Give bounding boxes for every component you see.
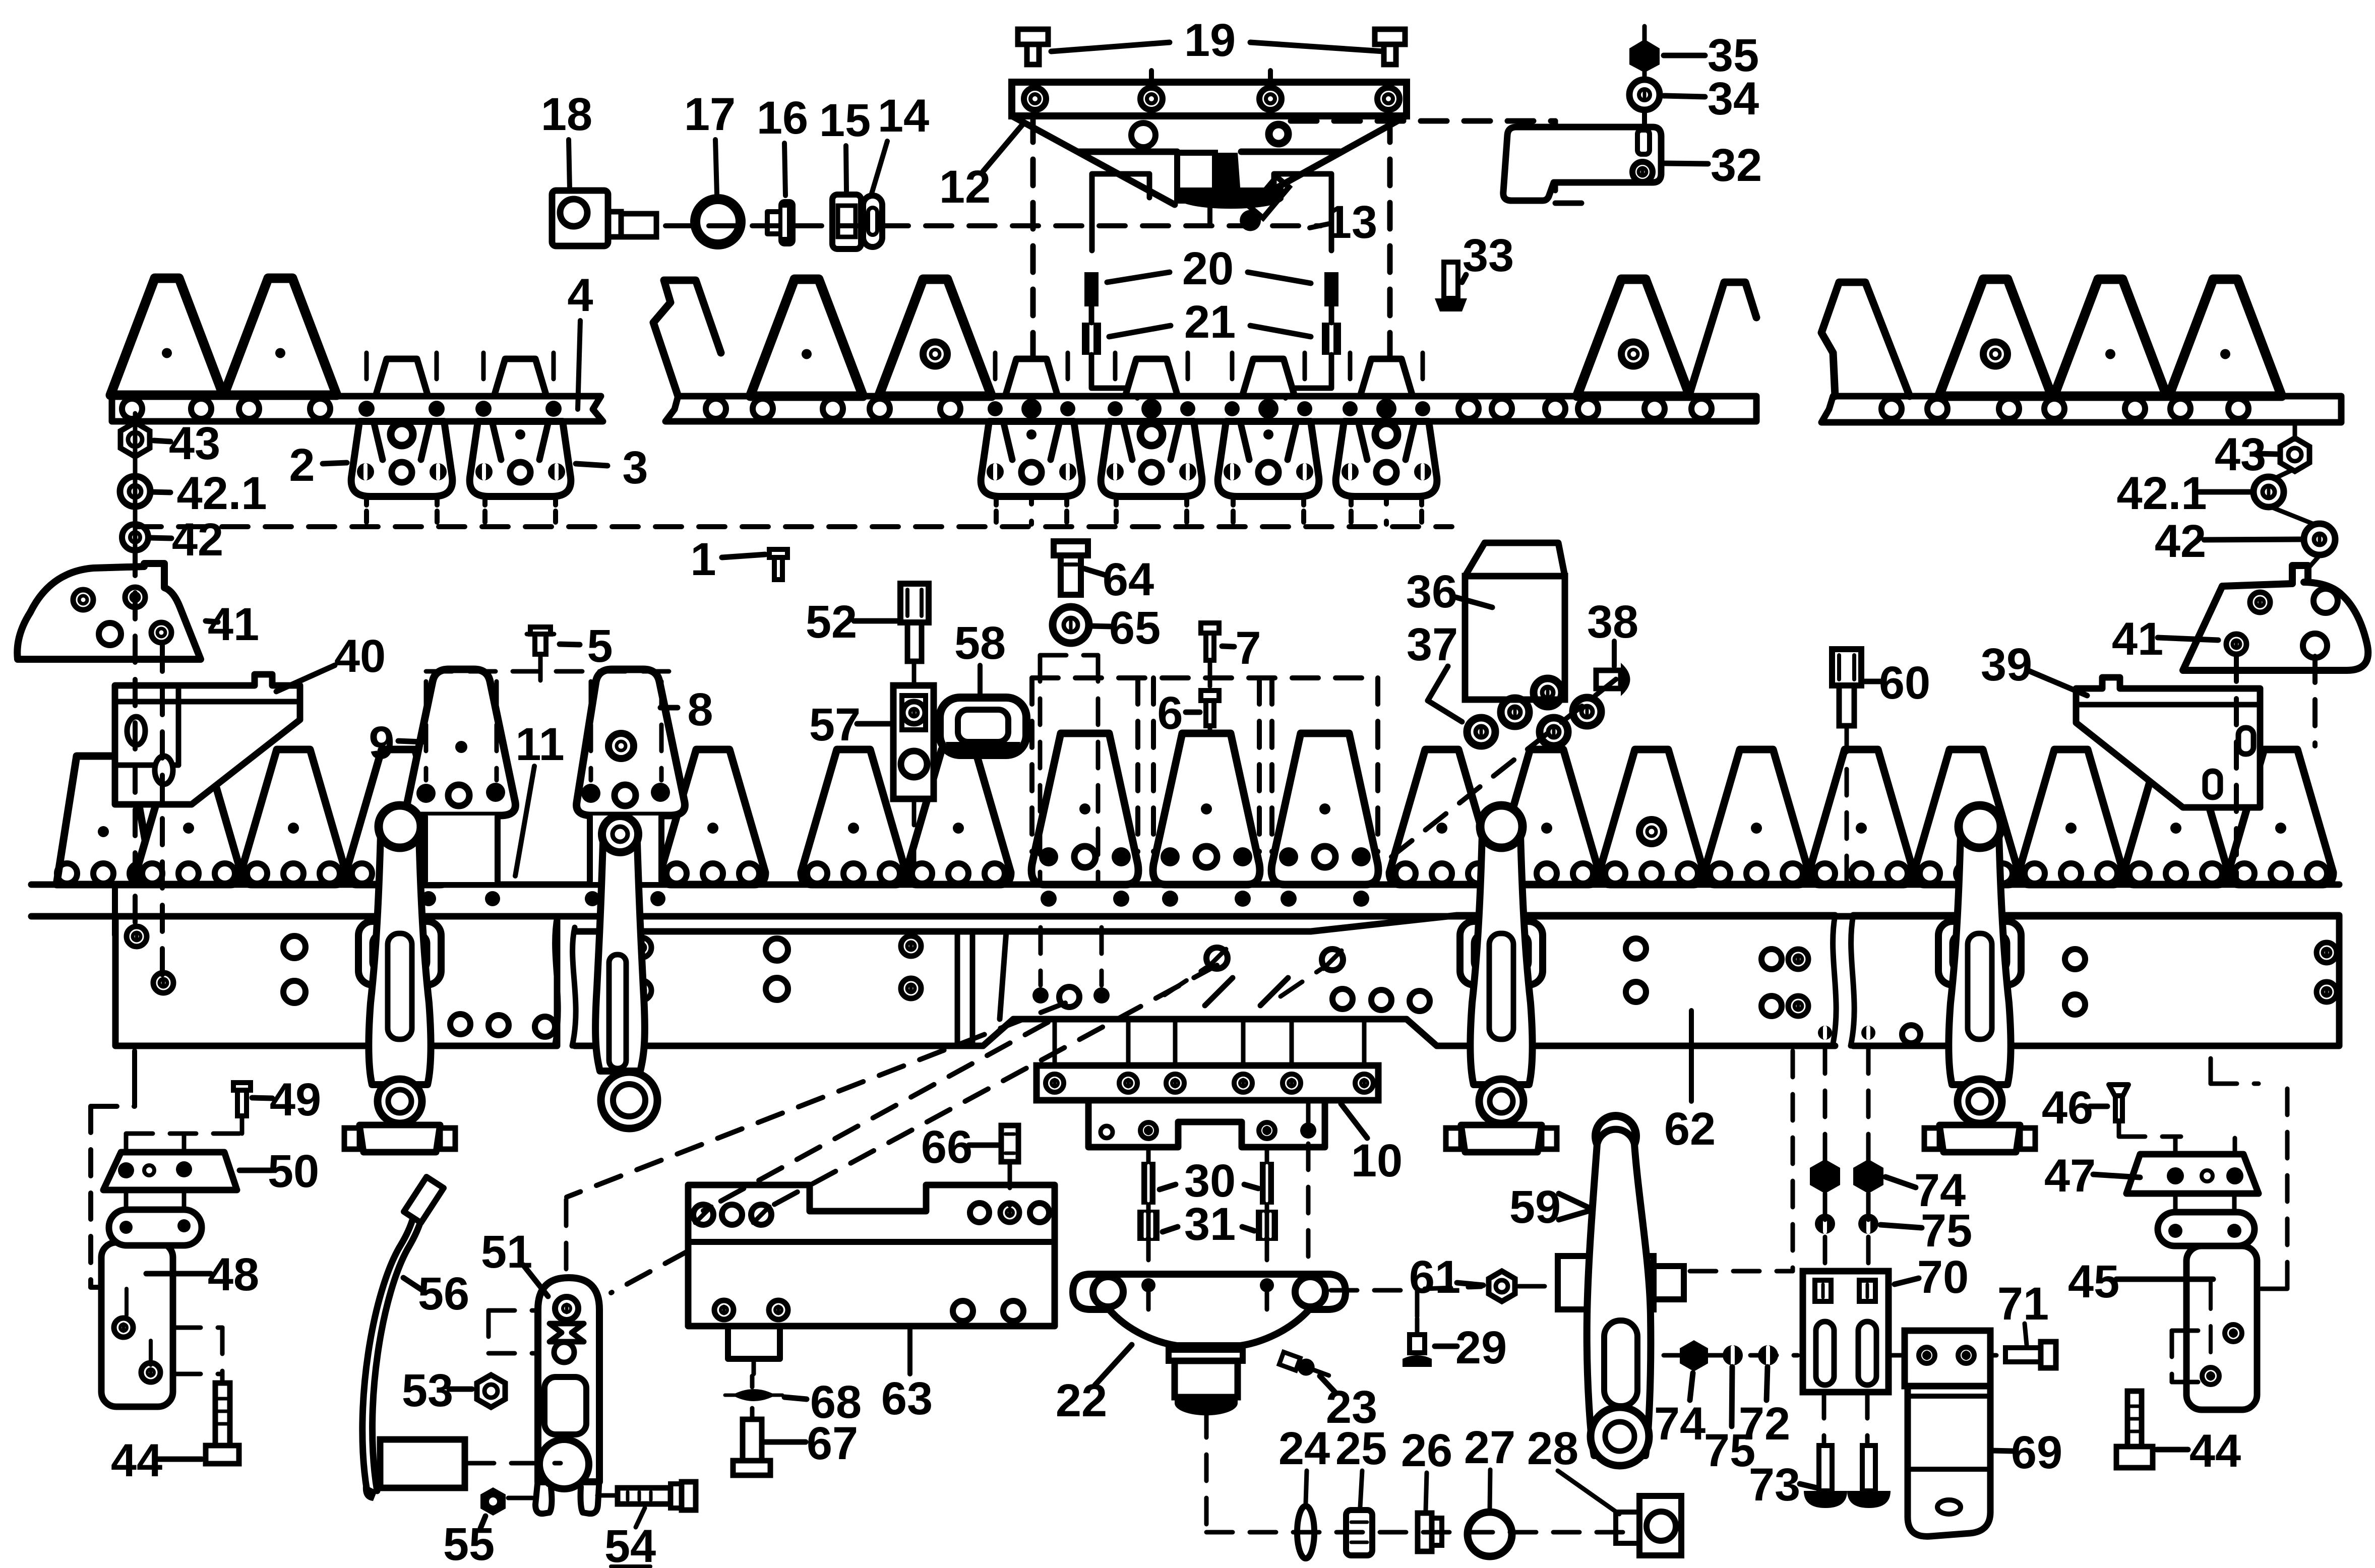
head holder 22 xyxy=(1073,1274,1346,1346)
knife blade partial xyxy=(1689,282,1756,396)
svg-text:70: 70 xyxy=(1917,1251,1969,1303)
dashed bolt line xyxy=(552,353,556,393)
dashed diag 37 xyxy=(1391,675,1621,857)
bolt 6 xyxy=(1201,691,1219,701)
bracket 69 xyxy=(1905,1331,1990,1386)
svg-text:27: 27 xyxy=(1464,1422,1515,1473)
svg-text:34: 34 xyxy=(1708,73,1759,124)
knife section xyxy=(1809,749,1914,885)
svg-text:1: 1 xyxy=(690,534,716,585)
nut 53 xyxy=(477,1375,505,1407)
top bar middle xyxy=(665,396,1756,421)
guard center 3 xyxy=(1218,421,1319,496)
part 15 sleeve xyxy=(832,195,861,249)
nut 74 right a xyxy=(1810,1159,1840,1194)
bar bolts xyxy=(1225,401,1240,416)
guard tip xyxy=(1242,359,1295,396)
bush 31 left xyxy=(1137,1210,1160,1241)
clamp bar 10 lower xyxy=(1088,1100,1325,1147)
svg-text:11: 11 xyxy=(515,719,564,770)
svg-text:15: 15 xyxy=(819,95,871,146)
frame weld marks xyxy=(1205,978,1233,1006)
svg-text:63: 63 xyxy=(881,1373,933,1424)
svg-text:64: 64 xyxy=(1103,554,1154,605)
dashed bolt line xyxy=(435,353,439,393)
svg-text:67: 67 xyxy=(807,1418,858,1469)
svg-text:6: 6 xyxy=(1157,687,1183,739)
bolt 52 xyxy=(900,584,929,622)
bolt 7 xyxy=(1201,623,1219,633)
svg-text:4: 4 xyxy=(567,270,593,321)
spring pin 30 right xyxy=(1260,1162,1274,1205)
bar hole xyxy=(2044,399,2064,419)
dashed box left xyxy=(132,1051,137,1081)
knife section xyxy=(2019,749,2123,885)
frame holes right xyxy=(1332,989,1353,1009)
ring 17 xyxy=(695,199,741,244)
center guard B xyxy=(1153,733,1260,885)
ticks frame to 10 xyxy=(1053,1022,1057,1063)
stack 74-75-72 axis xyxy=(1664,1353,1798,1358)
svg-text:43: 43 xyxy=(169,418,220,469)
bolt 19 right xyxy=(1375,29,1405,44)
bar bolts xyxy=(988,401,1003,416)
top bar bolt xyxy=(475,401,492,417)
plate 63 xyxy=(688,1185,1055,1326)
head cup xyxy=(1169,1350,1243,1361)
dashed bolt line xyxy=(364,353,369,393)
swing arm 2 xyxy=(595,831,645,1071)
knife blade xyxy=(879,279,992,396)
bolt 73 a xyxy=(1819,1446,1832,1491)
dashed head bolt line xyxy=(1029,678,1034,852)
bar hole xyxy=(823,399,843,419)
top bar bolt xyxy=(545,401,562,417)
svg-text:57: 57 xyxy=(809,699,861,750)
swing arm 1 xyxy=(369,815,431,1085)
plate 63 tab xyxy=(728,1326,780,1359)
dashed bolt lines right shoe xyxy=(2234,655,2239,882)
svg-text:61: 61 xyxy=(1409,1251,1460,1303)
svg-text:48: 48 xyxy=(208,1249,259,1300)
knife blade xyxy=(224,278,337,395)
svg-text:42.1: 42.1 xyxy=(176,468,267,519)
dashed head outline xyxy=(1032,675,1378,680)
tube 61-59 xyxy=(1558,1256,1654,1309)
bar hole xyxy=(1578,399,1598,419)
frame plate left xyxy=(115,916,557,1046)
plate 47 xyxy=(2126,1154,2259,1194)
svg-text:45: 45 xyxy=(2068,1256,2119,1307)
knife blade xyxy=(1939,279,2052,396)
svg-text:54: 54 xyxy=(604,1521,656,1568)
nut 43 left xyxy=(133,413,138,595)
spring strip 56 xyxy=(362,1190,418,1491)
plate 50 xyxy=(103,1152,237,1190)
dashed stud axes 70 xyxy=(1823,1047,1828,1168)
spring 20 right xyxy=(1324,272,1338,306)
svg-text:44: 44 xyxy=(2189,1425,2241,1477)
knife section wide end xyxy=(56,756,153,885)
top bar hole xyxy=(239,399,259,419)
dashed link to plate 32 xyxy=(1291,118,1555,124)
clamp bar 10 xyxy=(1037,1065,1378,1100)
bracket 12 holes xyxy=(1024,88,1046,110)
dashed diag to 51 top xyxy=(567,1003,1065,1197)
knife section xyxy=(2228,749,2333,885)
bar hole xyxy=(1458,399,1479,419)
svg-text:69: 69 xyxy=(2011,1427,2062,1478)
sleeve 25 xyxy=(1346,1510,1372,1555)
shoe 41 left xyxy=(17,563,201,659)
knife section xyxy=(906,749,1011,885)
dashed box 64 xyxy=(1038,655,1043,883)
svg-text:65: 65 xyxy=(1109,602,1161,654)
dashed 22-29 xyxy=(1331,1288,1417,1293)
dashed right net xyxy=(2285,1089,2290,1289)
svg-text:18: 18 xyxy=(541,89,592,140)
svg-text:62: 62 xyxy=(1664,1103,1716,1155)
guard 3 xyxy=(470,421,571,496)
spring 20 left xyxy=(1084,272,1099,306)
dashed diagonals to 51 xyxy=(763,965,1217,1211)
shoe 41 right xyxy=(2183,566,2368,670)
svg-text:9: 9 xyxy=(369,717,394,769)
bar hole xyxy=(940,399,960,419)
lever 59 xyxy=(1596,1116,1636,1156)
slashed holes xyxy=(1206,948,1228,969)
knife blade xyxy=(110,278,223,395)
frame plate center xyxy=(575,915,1835,1046)
washers 37 xyxy=(1467,718,1495,746)
washer 75 a xyxy=(1815,1214,1835,1234)
nut 74 right b xyxy=(1853,1159,1883,1194)
frame joint lines xyxy=(955,931,960,1046)
clamp plate 57 xyxy=(893,685,934,799)
washer 75 b xyxy=(1858,1214,1878,1234)
guard tip xyxy=(1360,359,1413,396)
dashed to bolts 73 xyxy=(1822,1392,1826,1442)
bolt 46 xyxy=(2109,1085,2128,1096)
knife blade xyxy=(2054,279,2167,396)
plug 38 xyxy=(1596,670,1621,688)
top bar bolt xyxy=(429,401,445,417)
spring 21 left xyxy=(1082,323,1101,355)
clamp 58 xyxy=(940,698,1026,755)
bolt 64 xyxy=(1054,541,1088,555)
bolt 44 right xyxy=(2127,1391,2142,1447)
dashed bolt lines xyxy=(1113,353,1118,396)
bolt 44 left xyxy=(215,1383,230,1446)
bolt 71 xyxy=(2005,1348,2041,1362)
spring pin 30 left xyxy=(1141,1162,1155,1205)
plate 32 xyxy=(1503,127,1661,201)
svg-text:29: 29 xyxy=(1455,1322,1507,1373)
staple clamp xyxy=(1460,921,1543,985)
bar hole xyxy=(2228,399,2248,419)
guard tip 3 xyxy=(494,359,546,396)
clip 29 xyxy=(1410,1335,1425,1353)
svg-text:47: 47 xyxy=(2044,1150,2096,1202)
dashed guard box left xyxy=(426,669,672,674)
top bar bolt xyxy=(358,401,375,417)
bar hole xyxy=(706,399,726,419)
frame bottom bolts xyxy=(1818,1026,1832,1040)
knife blade xyxy=(2169,279,2282,396)
knife section xyxy=(241,749,346,885)
frame plate right xyxy=(1853,915,2339,1046)
knife section xyxy=(1704,749,1809,885)
svg-text:56: 56 xyxy=(418,1268,469,1320)
stud 13 xyxy=(1236,175,1291,235)
knife section xyxy=(2123,749,2228,885)
swing arm 4 xyxy=(1948,815,2011,1085)
knife section xyxy=(1914,749,2019,885)
bush 31 right xyxy=(1256,1210,1278,1241)
guard tip 2 xyxy=(376,359,428,396)
dashed spring axes xyxy=(1146,1147,1151,1270)
knife section xyxy=(346,749,451,885)
top bar hole xyxy=(122,399,142,419)
dashed bolt lines shoe xyxy=(133,549,138,930)
bar hole xyxy=(1545,399,1565,419)
knife blade xyxy=(750,279,863,396)
nut 61 xyxy=(1489,1271,1515,1301)
dashed 55-54 xyxy=(508,1496,532,1500)
nut 35 xyxy=(1642,26,1647,40)
svg-text:75: 75 xyxy=(1921,1205,1972,1257)
svg-text:44: 44 xyxy=(111,1435,162,1486)
svg-text:42.1: 42.1 xyxy=(2116,468,2207,519)
svg-text:28: 28 xyxy=(1527,1423,1578,1474)
bar hole xyxy=(1927,399,1947,419)
svg-text:42: 42 xyxy=(2155,516,2206,567)
guard tip xyxy=(1005,359,1058,396)
knife blade partial xyxy=(1821,282,1910,396)
dashed head bolt line xyxy=(1375,678,1380,852)
staple clamp xyxy=(358,921,441,985)
svg-text:53: 53 xyxy=(402,1365,453,1416)
link 51 xyxy=(538,1278,599,1482)
center guard A xyxy=(1031,733,1138,885)
top bar left xyxy=(112,396,603,421)
knife section xyxy=(1494,749,1599,885)
guard center 4 xyxy=(1336,421,1437,496)
bolt 73 b xyxy=(1862,1446,1875,1491)
guard tip xyxy=(1125,359,1178,396)
top bar hole xyxy=(310,399,330,419)
svg-text:42: 42 xyxy=(172,514,223,566)
strip block xyxy=(380,1439,465,1488)
part 16 washer xyxy=(778,199,796,246)
bolt 54 xyxy=(618,1488,671,1504)
dashed head bolt line xyxy=(1257,678,1262,852)
block 28 xyxy=(1639,1496,1681,1555)
dashed bolt axes 19 xyxy=(1030,116,1036,396)
knife section xyxy=(1389,749,1494,885)
dashed head bolt line xyxy=(1269,678,1274,852)
knife section xyxy=(136,749,241,885)
bolt 60 xyxy=(1832,649,1861,685)
plate 70 xyxy=(1803,1271,1889,1392)
bar hole xyxy=(753,399,773,419)
nut 43 right xyxy=(2293,423,2297,440)
knife section xyxy=(1599,749,1704,885)
bar hole xyxy=(1999,399,2019,419)
guard 2 xyxy=(351,421,453,496)
svg-text:50: 50 xyxy=(268,1146,319,1197)
frame joint break right xyxy=(1833,915,1854,1046)
svg-text:59: 59 xyxy=(1509,1181,1561,1233)
swing arm 3 xyxy=(1470,815,1532,1085)
dashed 48-44 xyxy=(174,1326,222,1330)
svg-text:36: 36 xyxy=(1406,566,1457,617)
svg-text:7: 7 xyxy=(1235,622,1261,674)
washer 42 right xyxy=(2304,524,2335,555)
dashed 46 path xyxy=(2117,1121,2121,1137)
part 18 bearing xyxy=(552,191,608,246)
svg-text:17: 17 xyxy=(684,89,736,140)
bracket 12 top plate xyxy=(1012,82,1407,116)
washer 75 left xyxy=(1723,1345,1743,1365)
svg-text:21: 21 xyxy=(1184,296,1236,348)
svg-text:40: 40 xyxy=(334,631,386,682)
frame edge continuation xyxy=(112,804,118,935)
svg-text:16: 16 xyxy=(757,92,808,144)
washer 65 xyxy=(1053,607,1089,643)
svg-text:46: 46 xyxy=(2042,1082,2093,1134)
svg-text:60: 60 xyxy=(1879,657,1930,709)
dashed 66 xyxy=(1008,1162,1012,1206)
bar hole xyxy=(1492,399,1512,419)
svg-text:20: 20 xyxy=(1182,243,1234,294)
svg-text:73: 73 xyxy=(1749,1459,1800,1511)
head bolt marks in frame xyxy=(1032,987,1049,1003)
bar hole xyxy=(2170,399,2190,419)
washer 68 xyxy=(732,1389,776,1401)
dashed bolt lines xyxy=(1348,353,1353,396)
svg-text:26: 26 xyxy=(1401,1425,1452,1476)
guard center 2 xyxy=(1101,421,1202,496)
top bar right xyxy=(1821,396,2341,422)
bar bolts xyxy=(1343,401,1358,416)
svg-text:8: 8 xyxy=(687,684,713,735)
svg-text:49: 49 xyxy=(270,1074,321,1125)
tall guard 9 xyxy=(407,669,516,816)
dashed 60 axis xyxy=(1845,726,1849,883)
bracket 45 xyxy=(2173,1194,2178,1212)
washer 42.1 left xyxy=(120,476,150,507)
dashed 63-67 xyxy=(750,1376,755,1387)
svg-text:39: 39 xyxy=(1981,639,2032,691)
svg-text:33: 33 xyxy=(1463,230,1514,281)
bolt 19 left xyxy=(1018,29,1048,44)
svg-text:25: 25 xyxy=(1335,1423,1387,1474)
svg-text:3: 3 xyxy=(622,442,648,493)
bar hole xyxy=(2125,399,2145,419)
washer 42 left xyxy=(122,524,148,550)
washer 72 xyxy=(1758,1345,1778,1365)
svg-text:31: 31 xyxy=(1184,1199,1236,1250)
bar hole xyxy=(1645,399,1665,419)
part 66 pin xyxy=(1001,1125,1018,1162)
svg-text:72: 72 xyxy=(1739,1398,1790,1450)
svg-text:37: 37 xyxy=(1407,619,1458,670)
svg-text:32: 32 xyxy=(1711,140,1762,191)
svg-text:24: 24 xyxy=(1278,1423,1330,1474)
seal 24 xyxy=(1297,1506,1314,1558)
part 14 seal xyxy=(863,196,882,247)
nut 74 left xyxy=(1680,1340,1708,1371)
knife section xyxy=(801,749,906,885)
svg-text:5: 5 xyxy=(587,620,613,672)
bar hole xyxy=(1691,399,1712,419)
svg-text:2: 2 xyxy=(289,440,315,491)
bracket 48 xyxy=(101,1242,173,1407)
bar bolts xyxy=(1108,401,1123,416)
bar hole xyxy=(870,399,890,419)
dashed bolt lines xyxy=(993,353,998,396)
center guard C xyxy=(1271,733,1378,885)
plug 26 xyxy=(1418,1513,1432,1551)
bolt 5 xyxy=(530,627,551,634)
frame holes xyxy=(127,926,147,947)
svg-text:10: 10 xyxy=(1351,1135,1403,1186)
dashed lines 51 xyxy=(564,1200,569,1276)
dashed head bolt line xyxy=(1151,678,1156,852)
top bar hole xyxy=(191,399,211,419)
svg-text:14: 14 xyxy=(878,90,929,142)
svg-text:58: 58 xyxy=(954,617,1006,669)
staple clamp xyxy=(1938,921,2021,985)
wear plate 39 xyxy=(2076,677,2260,807)
knife section xyxy=(660,749,765,885)
svg-text:74: 74 xyxy=(1654,1398,1706,1450)
bolt 49 xyxy=(233,1083,251,1090)
nut 55 xyxy=(480,1487,506,1516)
bar hole xyxy=(1881,399,1902,419)
dashed bolt lines xyxy=(1230,353,1235,396)
tall guard 8 xyxy=(577,669,685,816)
reservoir 36 xyxy=(1465,543,1565,576)
spring 21 right xyxy=(1322,323,1341,355)
middle bar rails xyxy=(31,882,2339,888)
dashed line 52-57 xyxy=(912,661,917,684)
axis dash line xyxy=(665,223,1321,228)
svg-text:66: 66 xyxy=(921,1121,972,1173)
svg-text:55: 55 xyxy=(443,1519,495,1568)
svg-text:19: 19 xyxy=(1184,15,1236,66)
knife head block xyxy=(1177,153,1215,201)
dashed 49-50 xyxy=(240,1116,245,1134)
stud 23 xyxy=(1278,1350,1332,1384)
washer 42.1 right xyxy=(2254,477,2284,507)
bolt 67 xyxy=(743,1419,762,1461)
bolt 1 xyxy=(769,549,787,557)
dashed bolt line xyxy=(481,353,486,393)
frame joint break xyxy=(555,916,576,1046)
spring connectors xyxy=(1092,174,1149,250)
dashed head bolt line xyxy=(1135,678,1140,852)
washer 34 xyxy=(1629,80,1660,110)
dashed exploded axis left xyxy=(135,524,1452,529)
wear plate 40 xyxy=(115,674,300,804)
svg-text:52: 52 xyxy=(806,596,857,648)
guard center 1 xyxy=(981,421,1082,496)
ring 27 xyxy=(1468,1512,1512,1556)
knife blade xyxy=(1577,279,1690,396)
screw 33 xyxy=(1444,262,1458,298)
